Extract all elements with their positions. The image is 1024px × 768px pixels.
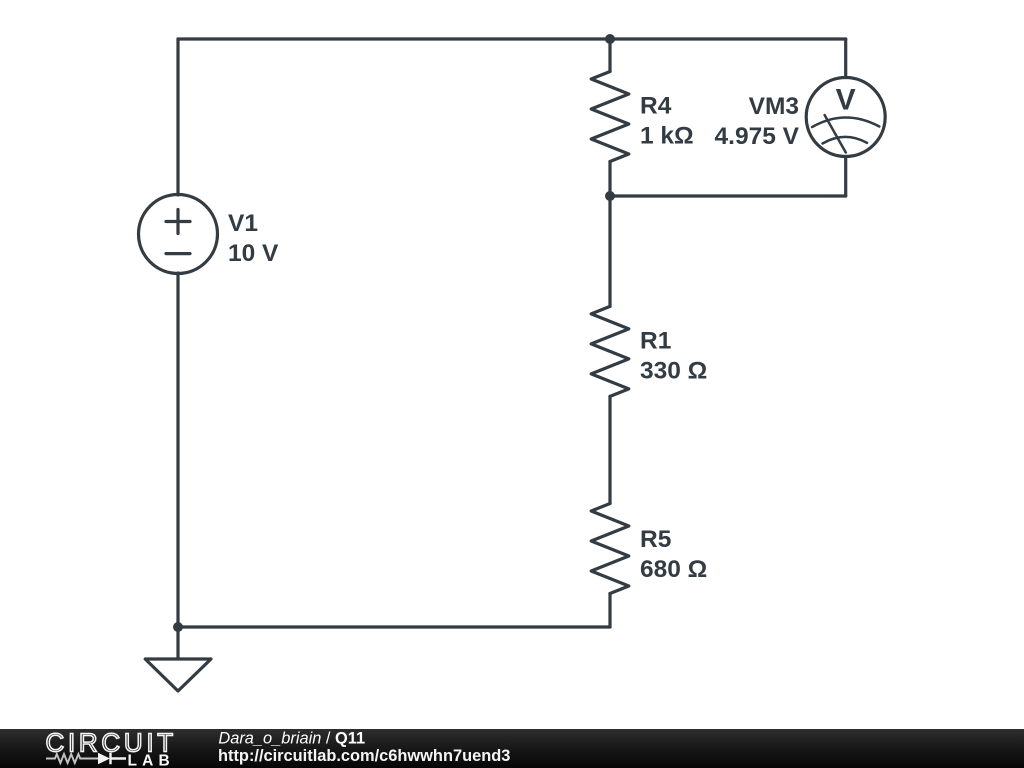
resistor R1 xyxy=(591,306,629,396)
wire bottom horizontal xyxy=(178,625,610,628)
svg-text:330 Ω: 330 Ω xyxy=(640,357,707,384)
V1 plus sign xyxy=(166,210,190,234)
wire R1-R5 link xyxy=(608,396,611,503)
svg-text:Dara_o_briain / Q11: Dara_o_briain / Q11 xyxy=(218,729,365,747)
node dot bottom-left xyxy=(173,622,183,632)
voltage source V1 circle xyxy=(139,195,218,274)
wire R1 top lead xyxy=(608,196,611,306)
svg-text:R1: R1 xyxy=(640,327,671,354)
wire voltmeter bottom lead xyxy=(844,157,847,197)
voltmeter scale arc large xyxy=(812,117,879,127)
ground xyxy=(145,659,211,691)
wire middle column R4 top lead xyxy=(608,39,611,72)
logo wire and resistor zigzag xyxy=(46,754,98,763)
footer bar xyxy=(0,729,1024,768)
resistor R5 xyxy=(591,504,629,594)
wire top horizontal xyxy=(178,37,846,40)
svg-text:http://circuitlab.com/c6hwwhn7: http://circuitlab.com/c6hwwhn7uend3 xyxy=(218,747,510,765)
voltmeter needle xyxy=(825,115,846,153)
svg-text:680 Ω: 680 Ω xyxy=(640,556,707,583)
svg-text:10 V: 10 V xyxy=(228,240,279,267)
logo diode bar and wire xyxy=(111,753,127,765)
wire left vertical upper xyxy=(176,39,179,195)
wire R5 bottom lead xyxy=(608,594,611,628)
svg-text:4.975 V: 4.975 V xyxy=(715,123,800,150)
svg-text:R4: R4 xyxy=(640,93,672,120)
svg-text:1 kΩ: 1 kΩ xyxy=(640,123,694,150)
svg-text:VM3: VM3 xyxy=(749,93,799,120)
svg-text:R5: R5 xyxy=(640,526,671,553)
voltmeter scale arc small xyxy=(823,137,868,144)
voltmeter VM3 circle xyxy=(806,78,885,157)
svg-text:V: V xyxy=(836,84,856,117)
resistor R4 xyxy=(591,72,629,162)
logo diode xyxy=(98,753,110,765)
svg-text:V1: V1 xyxy=(228,210,258,237)
svg-text:LAB: LAB xyxy=(128,753,175,768)
wire voltmeter top lead xyxy=(844,39,847,78)
wire left vertical lower xyxy=(176,273,179,659)
node dot top xyxy=(605,34,615,44)
node dot middle xyxy=(605,191,615,201)
wire middle horizontal xyxy=(610,194,846,197)
V1 minus sign xyxy=(166,252,190,255)
wire middle column R4 bottom lead xyxy=(608,162,611,197)
